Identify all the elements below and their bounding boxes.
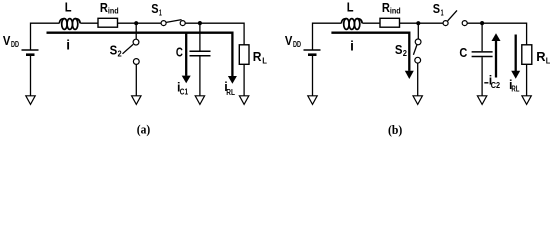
svg-text:C2: C2 [491,81,501,90]
switch S2 lever b (nearly closed) [413,45,417,55]
switch S2 contacts b [415,39,421,63]
battery VDD short plate [26,53,35,56]
svg-text:L: L [65,1,72,15]
svg-text:L: L [347,1,354,15]
node junction dot 1 [134,21,138,25]
battery VDD short plate b [308,53,317,56]
svg-text:R: R [536,50,545,64]
svg-text:DD: DD [11,40,19,49]
wire coil to resistor [80,22,98,24]
svg-text:V: V [285,34,293,48]
wire battery to ground b [312,56,314,96]
wire capacitor to ground [199,57,201,96]
wire coil to resistor b [362,22,380,24]
svg-text:1: 1 [441,8,444,17]
battery VDD long plate b [304,49,321,51]
wire resistor to S1 b [400,22,444,24]
arrowhead iRL [228,76,237,84]
svg-text:S: S [433,2,440,16]
wire junction1 down to S2 b [417,23,419,39]
battery VDD long plate [22,49,39,51]
wire S1 to right corner and down to RL b [467,23,526,45]
switch S1 [161,21,185,26]
svg-text:i: i [350,38,354,53]
svg-text:ind: ind [390,7,401,16]
resistor Rind box [98,18,118,27]
wire junction2 down to capacitor b [481,23,483,51]
svg-text:S: S [151,2,158,16]
switch S2 contacts [133,39,139,64]
inductor L coil b [341,19,362,30]
current arrow -iC2 (up) b [495,41,497,78]
ground (RL) b [522,96,531,105]
wire top rail left segment (riser to coil) [31,23,60,50]
svg-text:R: R [100,1,108,15]
svg-text:ind: ind [108,7,119,16]
switch S2 lever [123,44,134,53]
svg-text:2: 2 [403,49,408,58]
ground (battery) b [308,96,317,105]
inductor L coil [59,19,80,30]
wire resistor to S1 [118,22,162,24]
wire battery to ground [30,56,32,96]
current arrow iC1 branch [185,33,187,76]
ground (RL) [239,96,248,105]
ground (capacitor) b [477,96,486,105]
capacitor C plates b [472,51,493,53]
svg-text:L: L [546,57,550,66]
svg-text:V: V [3,34,11,48]
wire junction1 down to S2 [135,23,137,39]
wire capacitor to ground b [481,57,483,96]
wire S1 to right corner and down to RL [185,23,244,45]
svg-text:2: 2 [118,50,123,59]
current arrow iRL (down) b [515,35,517,72]
wire RL bottom to ground b [526,64,528,96]
svg-text:C: C [459,46,467,60]
svg-text:RL: RL [511,84,519,93]
wire junction2 down to capacitor [199,23,201,50]
svg-text:DD: DD [293,40,301,49]
ground (S2) [132,96,141,105]
resistor RL box b [522,45,532,65]
switch S1 b [443,21,467,26]
wire top rail left segment (riser to coil) b [313,23,342,50]
svg-text:1: 1 [159,8,162,17]
svg-text:S: S [395,43,403,57]
wire S2 to ground [135,64,137,95]
wire RL bottom to ground [243,64,245,96]
arrowhead i b [405,71,414,79]
label -iC2 b [484,82,488,84]
svg-text:(a): (a) [137,121,151,136]
node junction dot 1 b [416,21,420,25]
resistor Rind box b [380,18,400,27]
svg-text:RL: RL [226,88,235,97]
svg-text:(b): (b) [388,122,402,137]
current arrow i (thick path) [47,33,233,76]
svg-text:R: R [382,1,390,15]
svg-text:R: R [253,50,262,64]
resistor RL box [239,45,249,65]
arrowhead iC1 [182,76,191,84]
svg-text:S: S [110,44,118,58]
current arrow i (thick path) b [331,33,409,71]
capacitor C plates [190,50,211,52]
ground (battery) [26,96,35,105]
switch S1 lever b (open) [448,10,457,20]
ground (capacitor) [195,96,204,105]
arrowhead -iC2 b [492,33,501,41]
svg-text:i: i [66,38,70,53]
svg-text:C1: C1 [180,87,189,96]
arrowhead iRL b [511,71,520,79]
switch S1 lever [166,20,181,23]
node junction dot 2 [198,21,202,25]
svg-text:C: C [176,46,183,60]
ground (S2) b [413,96,422,105]
node junction dot 2 b [480,21,484,25]
wire S2 to ground b [417,63,419,96]
svg-text:L: L [262,56,267,65]
